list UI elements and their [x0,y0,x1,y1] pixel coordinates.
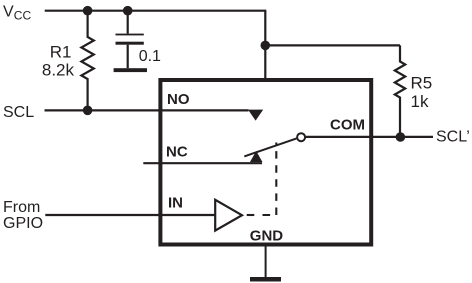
svg-text:IN: IN [168,195,183,212]
wire: From GPIO to IN buffer [45,214,215,216]
NC contact arrow [250,151,263,162]
net label Vcc [3,4,31,23]
svg-text:NO: NO [167,91,190,108]
svg-text:COM: COM [330,117,365,134]
junction: Vcc rail / R1 [83,6,93,16]
svg-text:CC: CC [14,9,32,23]
svg-text:R5: R5 [411,73,433,92]
junction: COM line / R5 bottom [396,132,406,142]
resistor R5 [395,45,405,137]
net label From GPIO [3,199,43,232]
svg-text:GPIO: GPIO [3,215,43,232]
svg-text:8.2k: 8.2k [42,60,75,79]
junction: Vcc rail / C1 [123,6,133,16]
buffer amplifier [215,200,242,231]
svg-text:1k: 1k [411,92,429,111]
wire: SCL to NO contact [45,109,249,111]
svg-text:From: From [3,199,40,216]
svg-text:SCL: SCL [3,104,34,121]
svg-text:0.1: 0.1 [139,48,161,65]
dashed control wire [247,214,277,216]
resistor R1 [81,11,93,111]
wire: GND pin to ground [265,245,267,278]
junction: Vcc drop / R5 feed [261,41,271,51]
switch U1 body [160,80,371,245]
svg-text:V: V [3,4,14,21]
wire: junction to R5 top [265,44,400,46]
ground: capacitor ground bar [114,68,147,72]
capacitor C1 [116,11,144,68]
svg-text:R1: R1 [50,43,72,62]
wire: NC stub [143,162,262,164]
switch lever [244,138,296,156]
svg-text:GND: GND [250,228,283,245]
junction: SCL / R1 bottom [83,106,93,116]
svg-text:NC: NC [166,143,188,160]
wire: Vcc drop to switch V+ [264,11,266,80]
wire: Vcc top rail [45,10,267,12]
ground: supply ground bar [250,277,281,282]
switch pole circle [297,133,305,141]
NO contact arrow [248,110,263,121]
svg-text:SCL’: SCL’ [436,128,470,145]
wire: COM to SCL' [306,136,433,138]
